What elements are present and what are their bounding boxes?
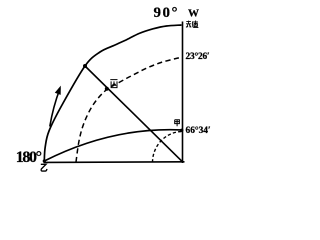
rotation arrow bbox=[50, 89, 60, 127]
equator outer arc bbox=[44, 25, 181, 161]
node at 180° corner bbox=[43, 159, 46, 162]
svg-text:W: W bbox=[188, 7, 199, 19]
node where terminator meets 90W line bbox=[180, 129, 183, 132]
label 丙 (drawn glyph) bbox=[110, 80, 117, 88]
node 丙 point bbox=[105, 87, 109, 91]
tropic dashed arc 23°26' bbox=[76, 57, 183, 162]
label 乙 (drawn glyph) bbox=[41, 164, 47, 171]
node on equator arc bbox=[83, 64, 87, 68]
polar circle dashed arc 66°34' bbox=[153, 132, 183, 163]
terminator curve bbox=[44, 130, 182, 161]
svg-text:180°: 180° bbox=[16, 149, 42, 166]
label 赤道 (drawn glyphs) bbox=[186, 21, 198, 28]
meridian line through 丙 bbox=[85, 66, 183, 162]
label 甲 (drawn glyph) bbox=[175, 120, 180, 127]
rotation arrowhead bbox=[55, 87, 60, 95]
svg-text:66°34′: 66°34′ bbox=[186, 125, 211, 136]
svg-text:90°: 90° bbox=[154, 5, 180, 21]
meridian 180 bottom line bbox=[44, 161, 185, 164]
meridian 90W vertical line bbox=[182, 22, 184, 164]
svg-text:23°26′: 23°26′ bbox=[186, 51, 210, 62]
